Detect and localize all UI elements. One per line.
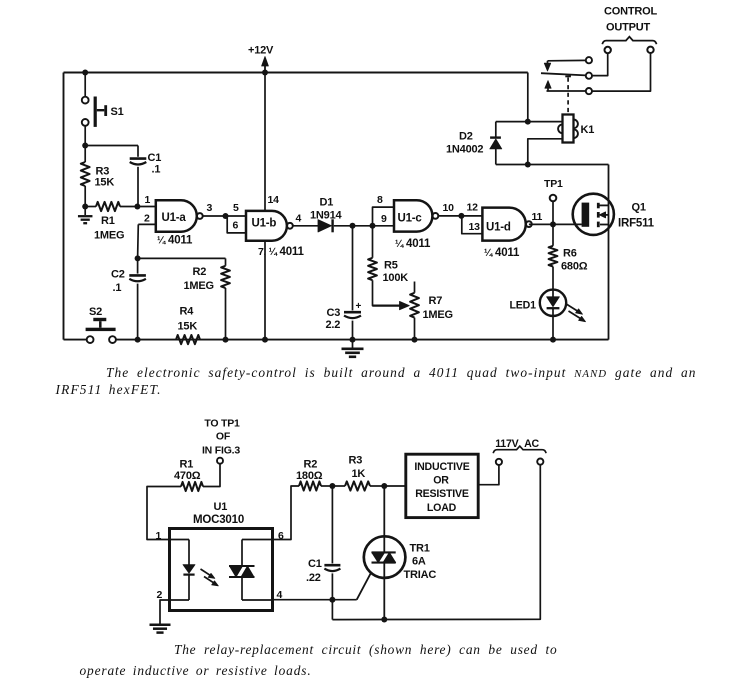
resistor R2 — [221, 266, 230, 288]
wire load to left AC terminal — [478, 465, 499, 485]
svg-text:R3: R3 — [349, 455, 363, 467]
label C3 — [326, 307, 341, 331]
label R4 — [178, 306, 198, 333]
wire left rail — [63, 73, 65, 340]
label S1 — [111, 106, 124, 118]
caption line 3 — [174, 642, 557, 657]
capacitor C3 — [344, 312, 361, 318]
potentiometer R7 — [410, 293, 419, 318]
svg-text:Q1: Q1 — [632, 202, 646, 214]
gate U1-c — [394, 200, 438, 231]
optocoupler U1 MOC3010 package — [170, 529, 273, 611]
label 117V AC — [495, 438, 539, 450]
svg-text:U1: U1 — [214, 501, 228, 513]
svg-text:10: 10 — [443, 202, 455, 214]
wire bottom ground rail — [116, 339, 609, 341]
node relay coil top junction — [525, 119, 531, 125]
node pin5 junction — [223, 213, 229, 219]
label R3 (bottom) — [349, 455, 366, 481]
svg-text:2: 2 — [157, 589, 163, 601]
label pin 8 — [377, 194, 383, 206]
label R6 — [561, 248, 588, 273]
label D1 — [310, 197, 342, 222]
label K1 — [581, 124, 595, 136]
svg-text:TP1: TP1 — [544, 178, 563, 190]
label U1 MOC3010 — [193, 501, 244, 526]
label 1/4 4011 (U1-c) — [395, 238, 431, 250]
svg-text:INDUCTIVE: INDUCTIVE — [414, 461, 469, 473]
svg-text:2.2: 2.2 — [326, 319, 341, 331]
wire +12V to U1-b pin 14 — [264, 73, 266, 211]
label MOC pin 4 — [277, 589, 283, 601]
label R3 — [95, 166, 115, 189]
potentiometer R7 wiper arrow — [373, 301, 410, 309]
svg-text:IRF511: IRF511 — [618, 218, 655, 230]
wire R1b to pin1 — [147, 487, 181, 540]
label LED1 — [510, 300, 537, 312]
svg-text:D1: D1 — [320, 197, 334, 209]
svg-text:C2: C2 — [111, 269, 125, 281]
svg-text:R5: R5 — [384, 260, 398, 272]
label pin 11 — [532, 211, 543, 223]
load box — [406, 454, 478, 517]
wire U1-c output — [439, 215, 483, 217]
MOC internal LED — [170, 540, 196, 601]
label 1/4 4011 (U1-a) — [157, 235, 193, 247]
caption line 1 — [106, 365, 697, 380]
wire coil bottom link — [528, 139, 563, 165]
svg-text:TR1: TR1 — [410, 543, 430, 555]
svg-text:S2: S2 — [89, 306, 102, 318]
terminal TO TP1 — [217, 458, 223, 464]
resistor R5 — [368, 258, 377, 280]
wire right output terminal — [592, 53, 651, 91]
svg-text:1N914: 1N914 — [310, 210, 342, 222]
wire D2 anode lead — [495, 149, 497, 165]
svg-text:U1-d: U1-d — [486, 221, 511, 233]
node S1/R3/C1 junction — [82, 143, 88, 149]
svg-text:14: 14 — [268, 194, 280, 206]
svg-text:U1-a: U1-a — [162, 212, 187, 224]
svg-text:7, ¼ 4011: 7, ¼ 4011 — [258, 246, 304, 258]
svg-text:15K: 15K — [95, 177, 115, 189]
terminal 117V AC left — [496, 459, 502, 465]
wire D2 cathode lead — [495, 122, 497, 138]
label C2 — [111, 269, 125, 295]
resistor R6 — [549, 246, 558, 267]
svg-text:R1: R1 — [101, 215, 115, 227]
label pin 3 — [207, 202, 213, 214]
svg-text:2: 2 — [144, 213, 150, 225]
node R3/R1/ground junction — [82, 204, 88, 210]
ground below R1 — [78, 216, 93, 223]
wire C2 lower lead — [137, 284, 139, 340]
wire R6 to LED1 — [552, 267, 554, 290]
label pin 13 — [469, 221, 481, 233]
label pin 4 — [296, 213, 302, 225]
label C1 — [148, 152, 162, 176]
node pin1 junction — [134, 204, 140, 210]
wire coil top link — [528, 121, 563, 123]
wire R3 upper lead — [84, 146, 86, 163]
svg-text:4: 4 — [296, 213, 302, 225]
capacitor C1 (bottom) — [324, 565, 340, 571]
wire R7 lower lead — [414, 318, 416, 340]
label C1 (bottom) — [306, 558, 322, 584]
gate U1-a — [156, 200, 203, 232]
svg-text:OUTPUT: OUTPUT — [606, 22, 651, 34]
label U1-b — [252, 217, 277, 229]
bracket 117V AC — [493, 446, 546, 453]
label R5 — [383, 260, 409, 285]
wire U1-b pin 7 to rail — [264, 241, 266, 340]
wire terminal to R1b — [203, 464, 220, 487]
wire node to load box — [384, 485, 406, 487]
label pin 1 — [145, 194, 151, 206]
label U1-c — [398, 213, 423, 225]
label pin 9 — [381, 213, 387, 225]
node junction +12V rail — [262, 70, 268, 76]
wire C1 branch — [85, 146, 138, 157]
diode D2 — [490, 138, 502, 149]
wire C1 lower lead — [137, 167, 139, 207]
wire R5 upper lead — [372, 226, 374, 258]
resistor R2 (bottom) — [299, 481, 321, 490]
switch S2 pushbutton — [86, 318, 116, 343]
wire U1-a output to node — [203, 215, 226, 217]
resistor R4 — [176, 335, 200, 344]
ground bottom circuit — [150, 625, 171, 633]
label MOC pin 2 — [157, 589, 163, 601]
svg-text:operate inductive or resistive: operate inductive or resistive loads. — [80, 663, 312, 678]
svg-text:.1: .1 — [113, 282, 122, 294]
wire left output terminal — [592, 53, 608, 75]
svg-text:1MEG: 1MEG — [94, 230, 124, 242]
relay armature arrow up — [545, 81, 551, 91]
svg-text:C1: C1 — [148, 152, 162, 164]
wire C3 upper lead — [352, 226, 354, 311]
svg-text:.22: .22 — [306, 572, 321, 584]
svg-text:6: 6 — [233, 220, 239, 232]
svg-text:117V AC: 117V AC — [495, 438, 539, 450]
label R2 — [184, 266, 214, 292]
label R1 (bottom) — [174, 459, 201, 482]
svg-text:K1: K1 — [581, 124, 595, 136]
label U1-a — [162, 212, 187, 224]
svg-text:U1-c: U1-c — [398, 213, 423, 225]
label TP1 — [544, 178, 563, 190]
svg-text:MOC3010: MOC3010 — [193, 514, 244, 526]
svg-text:R6: R6 — [563, 248, 577, 260]
label pin 5 — [233, 202, 239, 214]
svg-text:6A: 6A — [412, 556, 426, 568]
wire U1-c pin 8 loop — [373, 207, 395, 226]
wire LED1 to rail — [552, 316, 554, 340]
wire U1-a pin 2 — [138, 224, 156, 258]
svg-text:OF: OF — [216, 431, 231, 443]
svg-text:1MEG: 1MEG — [423, 309, 453, 321]
label 1/4 4011 (U1-d) — [484, 247, 520, 259]
node R2 rail junction — [223, 337, 229, 343]
wire R2 upper lead — [225, 258, 227, 265]
relay armature blade — [541, 73, 586, 75]
caption line 4 — [80, 663, 312, 678]
svg-text:1: 1 — [156, 530, 162, 542]
node junction top-left — [82, 70, 88, 76]
switch S1 pushbutton — [82, 97, 107, 127]
wire relay actuator dashed — [565, 76, 571, 114]
svg-text:TO TP1: TO TP1 — [204, 418, 240, 430]
wire D2 top link — [496, 121, 528, 123]
svg-text:IRF511 hexFET.: IRF511 hexFET. — [55, 382, 162, 397]
wire R3 lower lead — [84, 186, 86, 207]
caption line 2 — [55, 382, 162, 397]
svg-text:3: 3 — [207, 202, 213, 214]
svg-text:R1: R1 — [180, 459, 194, 471]
wire U1-d output pin 11 — [529, 223, 582, 225]
svg-text:LED1: LED1 — [510, 300, 537, 312]
wire bottom rail left segment — [64, 339, 87, 341]
label R1 — [94, 215, 124, 242]
wire U1-a pin 1 — [137, 206, 155, 208]
wire C1b upper lead — [331, 486, 333, 563]
svg-text:1: 1 — [145, 194, 151, 206]
ground main — [342, 340, 364, 357]
node TR1 top junction — [381, 483, 387, 489]
label D2 — [446, 131, 483, 156]
svg-text:470Ω: 470Ω — [174, 470, 201, 482]
svg-text:CONTROL: CONTROL — [604, 6, 657, 18]
svg-text:IN FIG.3: IN FIG.3 — [202, 445, 240, 457]
wire C1b bottom stub — [331, 600, 333, 620]
wire R2 branch — [138, 257, 226, 259]
label R2 (bottom) — [296, 459, 323, 482]
wire Q1 drain-source vertical — [608, 165, 610, 340]
relay fixed contact NO lead — [547, 73, 593, 95]
svg-text:¼ 4011: ¼ 4011 — [395, 238, 431, 250]
wire U1-d pin 13 loop — [462, 216, 483, 234]
LED LED1 — [540, 290, 586, 322]
wire C2 upper lead — [137, 258, 139, 273]
wire +12V rail drop to relay — [527, 73, 529, 122]
label C3 plus — [356, 301, 362, 312]
label pin 12 — [467, 202, 479, 214]
svg-text:R2: R2 — [193, 266, 207, 278]
resistor R3 (bottom) — [345, 481, 370, 490]
wire drain link — [496, 164, 609, 166]
gate U1-b — [246, 211, 293, 241]
label pin 14 — [268, 194, 280, 206]
svg-text:5: 5 — [233, 202, 239, 214]
node C2 rail junction — [135, 337, 141, 343]
transistor Q1 IRF511 — [573, 194, 614, 235]
resistor R3 — [81, 162, 90, 186]
node gate/TP1 junction — [550, 221, 556, 227]
svg-text:The relay-replacement circuit: The relay-replacement circuit (shown her… — [174, 642, 557, 657]
node R7 rail junction — [412, 337, 418, 343]
wire top +12V rail — [64, 72, 528, 74]
relay fixed contact NC — [544, 57, 592, 71]
wire S1 to node — [84, 126, 86, 146]
resistor R1 — [85, 202, 137, 211]
wire D1 to U1-c pin 9 — [334, 225, 394, 227]
label MOC pin 1 — [156, 530, 162, 542]
svg-text:11: 11 — [532, 211, 543, 223]
gate U1-d — [482, 208, 531, 241]
svg-text:180Ω: 180Ω — [296, 470, 323, 482]
label 7, 1/4 4011 (U1-b) — [258, 246, 304, 258]
wire ground stub R1 — [84, 207, 86, 216]
svg-text:1K: 1K — [352, 468, 366, 480]
node C3 junction — [350, 223, 356, 229]
wire U1-b output — [293, 225, 318, 227]
relay coil K1 — [558, 115, 578, 143]
svg-text:RESISTIVE: RESISTIVE — [415, 488, 469, 500]
wire node to R3b — [332, 485, 345, 487]
wire S1 upper lead — [84, 73, 86, 97]
svg-text:C3: C3 — [327, 307, 341, 319]
wire R7 top stub — [414, 282, 416, 293]
svg-text:R7: R7 — [429, 295, 443, 307]
wire R2b to node — [321, 485, 332, 487]
label TR1 — [404, 543, 437, 581]
svg-text:13: 13 — [469, 221, 481, 233]
svg-text:D2: D2 — [459, 131, 473, 143]
svg-text:680Ω: 680Ω — [561, 261, 588, 273]
triac TR1 — [357, 486, 406, 620]
wire U1-b pin 6 loop — [227, 216, 246, 233]
terminal control output left — [605, 47, 611, 53]
node pin12 junction — [458, 213, 464, 219]
node pin2/C2/R2 junction — [135, 255, 141, 261]
wire MOC pin6 to R2b — [273, 486, 300, 540]
svg-text:.1: .1 — [152, 164, 161, 176]
wire U1-b pin 5 — [226, 215, 247, 217]
node coil bottom junction — [525, 162, 531, 168]
wire right AC terminal down — [332, 465, 540, 620]
label U1-d — [486, 221, 511, 233]
node C1b/gate junction — [329, 597, 335, 603]
svg-text:R2: R2 — [304, 459, 318, 471]
bracket control output — [602, 37, 656, 45]
label +12V — [248, 45, 274, 57]
label S2 — [89, 306, 102, 318]
svg-text:+: + — [356, 301, 362, 312]
resistor R1 (bottom) — [181, 482, 203, 491]
svg-text:1MEG: 1MEG — [184, 280, 214, 292]
node C3 rail junction — [350, 337, 356, 343]
svg-text:OR: OR — [433, 475, 449, 487]
node TR1 bottom junction — [381, 617, 387, 623]
svg-text:¼ 4011: ¼ 4011 — [157, 235, 193, 247]
svg-text:The electronic safety-control: The electronic safety-control is built a… — [106, 365, 697, 380]
node LED1 rail junction — [550, 337, 556, 343]
label pin 2 — [144, 213, 150, 225]
node C1b top junction — [329, 483, 335, 489]
svg-text:12: 12 — [467, 202, 479, 214]
label OUTPUT — [606, 22, 651, 34]
label pin 6 — [233, 220, 239, 232]
label Q1 — [618, 202, 655, 230]
svg-text:LOAD: LOAD — [427, 502, 457, 514]
label pin 10 — [443, 202, 455, 214]
label R7 — [423, 295, 453, 321]
MOC light arrows — [201, 569, 219, 586]
svg-text:¼ 4011: ¼ 4011 — [484, 247, 520, 259]
MOC internal phototriac — [229, 540, 273, 601]
label INDUCTIVE OR RESISTIVE LOAD — [414, 461, 469, 514]
label MOC pin 6 — [278, 530, 284, 542]
svg-text:U1-b: U1-b — [252, 217, 277, 229]
svg-text:TRIAC: TRIAC — [404, 569, 437, 581]
wire C1b lower lead — [331, 573, 333, 599]
svg-text:100K: 100K — [383, 272, 409, 284]
svg-text:15K: 15K — [178, 321, 198, 333]
svg-text:R4: R4 — [180, 306, 195, 318]
capacitor C1 — [130, 159, 147, 165]
wire C3 lower lead — [352, 321, 354, 340]
wire R6 upper lead — [552, 224, 554, 245]
wire R5 to R7 wiper — [373, 280, 402, 305]
label TO TP1 — [202, 418, 240, 457]
svg-text:1N4002: 1N4002 — [446, 144, 483, 156]
terminal 117V AC right — [537, 459, 543, 465]
label CONTROL — [604, 6, 657, 18]
svg-text:8: 8 — [377, 194, 383, 206]
svg-text:9: 9 — [381, 213, 387, 225]
terminal control output right — [647, 47, 653, 53]
svg-text:S1: S1 — [111, 106, 124, 118]
svg-text:C1: C1 — [308, 558, 322, 570]
wire R2 lower lead — [225, 288, 227, 340]
capacitor C2 — [129, 275, 146, 281]
power +12V arrow — [262, 57, 269, 73]
wire R3b to node — [370, 485, 384, 487]
node U1-b pin7 rail junction — [262, 337, 268, 343]
wire MOC pin2 to ground — [160, 600, 170, 624]
diode D1 — [318, 219, 333, 232]
terminal TP1 — [550, 195, 557, 225]
svg-text:+12V: +12V — [248, 45, 274, 57]
node R5 junction — [370, 223, 376, 229]
wire MOC pin4 to gate — [273, 599, 357, 601]
